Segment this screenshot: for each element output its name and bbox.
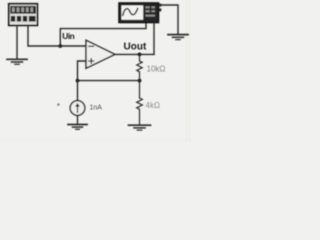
node rail left junction	[76, 79, 80, 83]
oscilloscope XSC1	[119, 3, 161, 23]
current source I1	[70, 101, 85, 116]
multimeter XMM1	[9, 4, 38, 26]
wire op-amp noninverting input to feedback rail	[78, 61, 87, 81]
speck artifact	[57, 103, 60, 106]
wire multimeter minus pin to ground	[16, 26, 18, 59]
resistor R1	[137, 54, 142, 80]
node Uin junction	[58, 44, 62, 48]
resistor R2	[137, 81, 143, 125]
svg-text:4kΩ: 4kΩ	[146, 101, 160, 110]
svg-text:10kΩ: 10kΩ	[147, 65, 166, 74]
node feedback junction	[138, 79, 142, 83]
wire node Uin to oscilloscope channel A	[60, 23, 146, 46]
ground (below R2)	[129, 125, 151, 130]
wire oscilloscope ground terminal	[161, 5, 178, 34]
wire multimeter plus pin to op-amp inverting input	[28, 26, 86, 46]
svg-text:Uout: Uout	[124, 41, 147, 52]
ground (below current source)	[68, 125, 87, 130]
op-amp U1	[86, 40, 115, 68]
ground (right of oscilloscope)	[168, 35, 188, 40]
svg-text:Uin: Uin	[62, 31, 74, 41]
wire current source top	[77, 81, 79, 101]
wire feedback rail	[78, 80, 140, 82]
node Uout junction	[138, 53, 142, 57]
wire op-amp output	[115, 53, 154, 55]
wire oscilloscope channel B to node Uout	[153, 23, 155, 55]
wire current source bottom	[77, 115, 79, 124]
ground (below multimeter)	[7, 59, 27, 64]
svg-text:1nA: 1nA	[90, 105, 103, 112]
